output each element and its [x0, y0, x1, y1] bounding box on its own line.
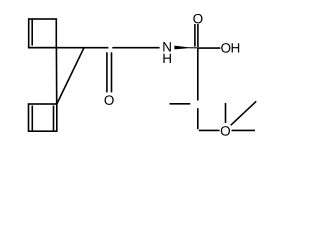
cyclobutadiene ring bottom-left [29, 104, 57, 131]
amide N label [163, 42, 171, 51]
double bond inner line, top ring [31, 20, 33, 46]
bond CH2 to ether O [199, 129, 220, 131]
main chain horizontal bond left [28, 47, 109, 49]
acid OH H [232, 43, 240, 52]
acid OH O [221, 43, 230, 53]
cyclobutene ring top-left [29, 19, 57, 48]
bond C down to quaternary C [197, 48, 199, 100]
bond quaternary C down [197, 108, 199, 129]
acid carbonyl O label [193, 14, 202, 24]
acid C=O double bond up [194, 24, 196, 47]
main chain horizontal bond to N [112, 47, 159, 49]
diagonal bond from O up-right [231, 101, 257, 125]
methyl bond left of quaternary C [170, 103, 191, 105]
double bond inner line left, bottom ring [31, 106, 33, 131]
methyl bond right of ether O [232, 129, 256, 131]
bond C to OH [198, 47, 221, 49]
amide O label [104, 95, 113, 105]
ether O label [221, 126, 230, 136]
stereo wedge bond N to C [174, 46, 197, 50]
amide H label [163, 54, 171, 63]
amide C=O double bond down [106, 52, 108, 92]
cyclopropane diagonal bond [57, 48, 84, 104]
wire bond between rings [55, 48, 57, 104]
double bond inner line right, bottom ring [53, 106, 55, 131]
methyl bond above ether O [225, 103, 227, 123]
